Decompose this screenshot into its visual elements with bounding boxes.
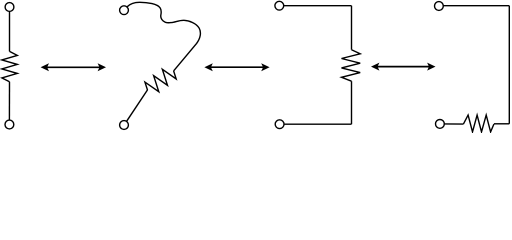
resistor element 4 (resistor at bottom of wire loop) (435, 2, 510, 132)
equivalence arrow 3 (double-headed) (371, 63, 436, 71)
wire bottom lead (127, 90, 148, 121)
arrowhead right (427, 63, 435, 71)
terminal bottom circle (436, 120, 445, 129)
terminal top circle (120, 6, 129, 15)
wire top vertical (351, 6, 353, 50)
arrowhead left (371, 63, 379, 71)
arrowhead left (204, 63, 212, 71)
wire squiggle (127, 2, 201, 71)
terminal bottom circle (5, 120, 14, 129)
resistor R2 zigzag (diagonal) (143, 64, 179, 96)
resistor element 3 (vertical resistor with side leads) (275, 1, 360, 128)
resistor R3 zigzag (342, 50, 361, 81)
wire bottom vertical (351, 81, 353, 124)
wire bottom lead (8, 82, 10, 120)
resistor R1 zigzag (2, 51, 17, 81)
arrowhead right (261, 63, 269, 71)
arrowhead left (41, 63, 49, 71)
terminal top circle (275, 1, 284, 10)
equivalence arrow 1 (double-headed) (41, 63, 106, 71)
terminal top circle (435, 2, 444, 11)
resistor element 2 (crooked drawing of same resistor) (120, 2, 201, 129)
wire right vertical (508, 6, 510, 124)
arrow shaft (47, 66, 101, 68)
arrowhead right (98, 63, 106, 71)
resistor element 1 (vertical, leftmost) (2, 3, 17, 129)
terminal bottom circle (275, 120, 284, 129)
terminal top circle (5, 3, 14, 12)
wire bottom right lead (494, 123, 509, 125)
wire top lead (9, 11, 11, 51)
arrow shaft (210, 66, 263, 68)
terminal bottom circle (120, 121, 129, 130)
equivalence arrow 2 (double-headed) (204, 63, 269, 71)
wire bottom left lead (444, 123, 463, 125)
wire top horizontal (443, 5, 509, 7)
wire bottom horizontal (284, 123, 352, 125)
arrow shaft (377, 66, 430, 68)
wire top horizontal (284, 5, 352, 7)
resistor R4 zigzag (horizontal) (463, 115, 494, 132)
